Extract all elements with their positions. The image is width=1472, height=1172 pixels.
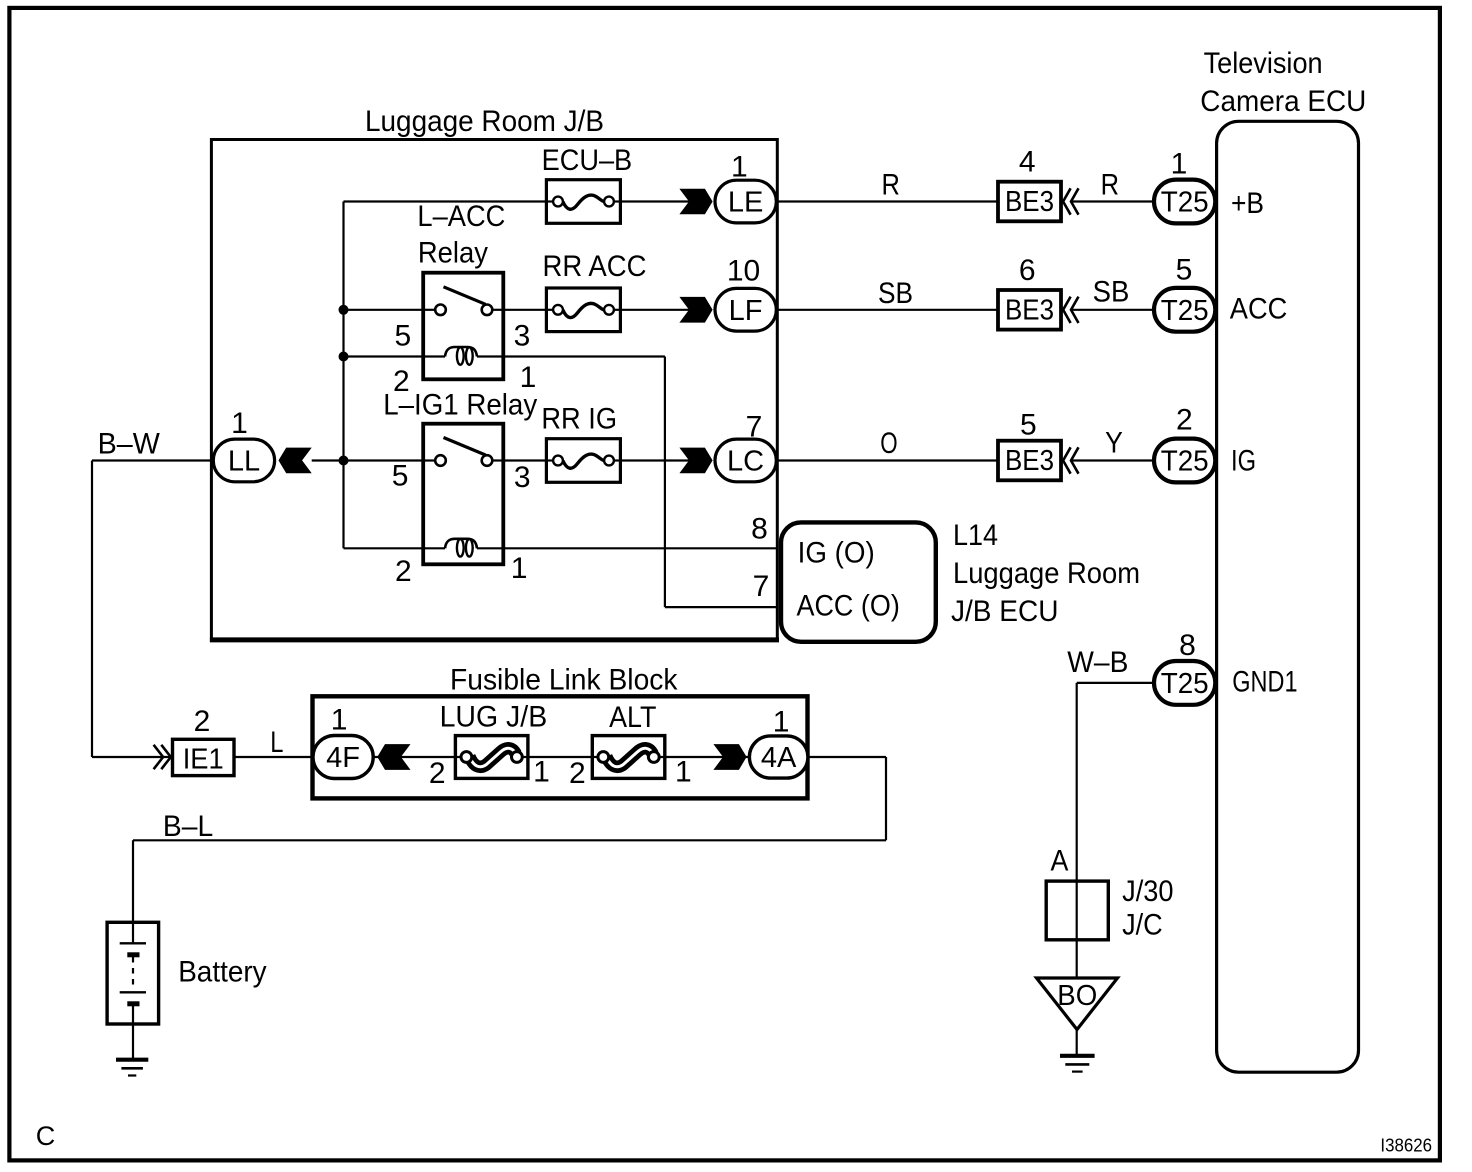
svg-text:BE3: BE3 xyxy=(1005,294,1054,326)
battery xyxy=(107,922,159,1024)
wire: 4A to corner xyxy=(808,756,886,758)
svg-text:T25: T25 xyxy=(1161,187,1209,219)
svg-text:3: 3 xyxy=(514,319,531,352)
connector BE3 pin 5 xyxy=(998,441,1061,481)
svg-text:Y: Y xyxy=(1105,426,1123,459)
fusible link ALT xyxy=(592,736,665,779)
wire: battery to ground xyxy=(132,1024,134,1060)
svg-text:IE1: IE1 xyxy=(183,744,224,776)
wire: L-ACC coil pin1 to bus VX2 xyxy=(477,355,665,357)
wire: relay 3 to RR ACC fuse xyxy=(503,309,546,311)
svg-text:4A: 4A xyxy=(761,742,797,774)
wire: SB from BE3 chevron to T25 xyxy=(1071,309,1154,311)
wire: W-B from T25 GND1 xyxy=(1077,682,1154,684)
chevron pair before IE1 xyxy=(154,745,171,769)
chevron pair at BE3 +B row xyxy=(1063,188,1078,214)
wire: ECU-B fuse to LE arrow xyxy=(620,200,689,202)
Television Camera ECU box xyxy=(1217,121,1359,1072)
svg-text:LUG J/B: LUG J/B xyxy=(440,701,548,734)
svg-text:1: 1 xyxy=(533,756,550,789)
svg-text:ECU–B: ECU–B xyxy=(542,144,633,177)
svg-text:+B: +B xyxy=(1231,187,1264,220)
svg-text:ACC: ACC xyxy=(1230,293,1288,326)
L14 Luggage Room J/B ECU box with pins IG (O) and ACC (O) xyxy=(781,522,936,641)
svg-text:RR ACC: RR ACC xyxy=(543,250,647,283)
wire: SB from LF to BE3 xyxy=(777,309,998,311)
wire: B-W horizontal to LL xyxy=(92,459,214,461)
connector 4A pin 1 xyxy=(749,736,808,778)
connector 4F pin 1 xyxy=(313,736,373,779)
Luggage Room J/B box bottom edge xyxy=(210,637,779,642)
BO ground symbol xyxy=(1060,1056,1095,1072)
svg-text:1: 1 xyxy=(231,407,248,440)
svg-text:1: 1 xyxy=(675,756,692,789)
connector LC pin 7 xyxy=(715,439,776,482)
svg-text:8: 8 xyxy=(1179,629,1196,662)
connector LL pin 1 xyxy=(213,439,274,482)
svg-text:3: 3 xyxy=(514,461,531,494)
wire: relay L-IG1 pin3 to RR IG fuse xyxy=(503,459,546,461)
svg-text:SB: SB xyxy=(878,277,913,310)
svg-text:BO: BO xyxy=(1057,980,1097,1012)
Fusible Link Block box xyxy=(313,696,808,798)
svg-text:L–IG1 Relay: L–IG1 Relay xyxy=(383,389,537,422)
connector LE pin 1 xyxy=(715,180,776,223)
connector BE3 pin 4 xyxy=(998,182,1061,222)
svg-text:2: 2 xyxy=(1176,404,1193,437)
svg-text:4F: 4F xyxy=(326,742,360,774)
connector IE1 pin 2 xyxy=(173,739,235,775)
svg-text:5: 5 xyxy=(395,319,412,352)
wire: R from LE to BE3 xyxy=(777,200,998,202)
arrow out of 4F xyxy=(377,744,410,770)
wire: 4F to LUG J/B link xyxy=(374,756,456,758)
svg-text:7: 7 xyxy=(746,410,763,443)
svg-text:5: 5 xyxy=(392,460,409,493)
wire: RR IG fuse to LC arrow xyxy=(620,459,689,461)
svg-text:Camera ECU: Camera ECU xyxy=(1200,85,1366,118)
wire: B-L row horizontal xyxy=(133,839,886,841)
wire: B-L vertical to battery xyxy=(132,840,134,922)
relay L-ACC (pins 5,3,2,1) xyxy=(423,273,503,380)
junction dot bus/ACC coil row xyxy=(339,352,349,362)
svg-text:IG: IG xyxy=(1231,445,1256,478)
connector T25 pin 1 (+B) xyxy=(1154,180,1215,224)
svg-text:I38626: I38626 xyxy=(1380,1135,1432,1156)
wire: L-IG1 coil row from bus xyxy=(344,547,446,549)
wire through J/30 box xyxy=(1076,881,1078,940)
svg-text:8: 8 xyxy=(751,513,768,546)
svg-text:Relay: Relay xyxy=(418,237,488,270)
fusible link LUG J/B xyxy=(455,736,528,779)
arrow out of LL xyxy=(279,448,312,474)
svg-text:2: 2 xyxy=(569,757,586,790)
wire: R from BE3 chevron to T25 xyxy=(1071,200,1154,202)
wire: RR ACC fuse to LF arrow xyxy=(620,309,689,311)
connector BE3 pin 6 xyxy=(998,290,1061,330)
svg-text:BE3: BE3 xyxy=(1005,445,1054,477)
arrow into LC xyxy=(679,448,712,474)
svg-text:10: 10 xyxy=(727,255,760,288)
wire: ECU-B row from bus to fuse xyxy=(344,200,547,202)
svg-text:RR IG: RR IG xyxy=(541,402,617,435)
svg-text:LE: LE xyxy=(728,187,763,219)
svg-text:L: L xyxy=(270,726,283,759)
svg-text:BE3: BE3 xyxy=(1005,186,1054,218)
fuse RR ACC xyxy=(546,288,620,332)
relay L-IG1 (pins 5,3,2,1) xyxy=(423,424,503,565)
svg-text:ACC (O): ACC (O) xyxy=(797,590,900,623)
junction dot bus/ACC row xyxy=(339,305,349,315)
connector LF pin 10 xyxy=(715,288,776,331)
svg-text:LF: LF xyxy=(729,295,763,327)
fuse RR IG xyxy=(546,439,620,483)
svg-text:2: 2 xyxy=(395,555,412,588)
ground triangle BO xyxy=(1037,978,1118,1030)
arrow into LE xyxy=(679,189,712,215)
wire: VX2 vertical to pin7 row xyxy=(664,357,666,608)
wire: ALT link to 4A arrow xyxy=(663,756,748,758)
connector T25 pin 2 (IG) xyxy=(1154,439,1215,483)
svg-text:1: 1 xyxy=(731,150,748,183)
svg-text:B–L: B–L xyxy=(163,810,213,843)
svg-text:1: 1 xyxy=(773,706,790,739)
fuse ECU-B xyxy=(546,180,620,224)
svg-text:1: 1 xyxy=(331,704,348,737)
svg-text:A: A xyxy=(1051,845,1069,878)
svg-text:2: 2 xyxy=(429,757,446,790)
svg-text:SB: SB xyxy=(1093,276,1130,309)
wire: BO apex to ground xyxy=(1076,1029,1078,1056)
wire: ACC row bus to relay xyxy=(344,309,424,311)
svg-text:LC: LC xyxy=(727,446,764,478)
arrow into LF xyxy=(679,297,712,323)
wire: LUG J/B link to ALT link xyxy=(526,756,592,758)
svg-text:L–ACC: L–ACC xyxy=(417,200,505,233)
svg-text:Television: Television xyxy=(1204,47,1323,80)
chevron pair at BE3 ACC row xyxy=(1063,297,1078,323)
svg-text:C: C xyxy=(36,1121,56,1151)
svg-text:T25: T25 xyxy=(1161,446,1209,478)
svg-text:1: 1 xyxy=(511,552,528,585)
wire: W-B vertical to J/30 xyxy=(1076,683,1078,881)
svg-text:W–B: W–B xyxy=(1067,646,1128,679)
wire: O from LC to BE3 xyxy=(777,459,998,461)
wire: IE1 row from B-W vertical xyxy=(92,756,173,758)
svg-text:6: 6 xyxy=(1019,254,1036,287)
chevron pair at BE3 IG row xyxy=(1063,447,1078,473)
wire: L-IG1 coil pin1 to J/B edge pin8 xyxy=(477,547,777,549)
wire: corner vertical to B-L row xyxy=(885,757,887,840)
svg-text:LL: LL xyxy=(228,446,260,478)
svg-text:Fusible Link Block: Fusible Link Block xyxy=(450,663,678,696)
wire: L from IE1 to 4F xyxy=(234,756,314,758)
svg-text:Luggage Room: Luggage Room xyxy=(953,557,1140,590)
svg-text:Battery: Battery xyxy=(178,956,266,989)
svg-text:Luggage Room J/B: Luggage Room J/B xyxy=(365,105,604,138)
svg-text:7: 7 xyxy=(753,570,770,603)
wire: L-ACC coil row xyxy=(344,355,446,357)
svg-text:R: R xyxy=(1101,169,1119,202)
svg-text:1: 1 xyxy=(1171,147,1188,180)
svg-text:J/30: J/30 xyxy=(1122,875,1173,908)
svg-text:4: 4 xyxy=(1019,146,1036,179)
arrow into 4A xyxy=(713,744,746,770)
wire: J/B left bus vertical xyxy=(342,202,344,549)
svg-text:T25: T25 xyxy=(1161,295,1209,327)
svg-text:T25: T25 xyxy=(1161,668,1209,700)
svg-text:O: O xyxy=(880,427,897,460)
svg-text:IG (O): IG (O) xyxy=(798,537,875,570)
svg-text:5: 5 xyxy=(1020,409,1037,442)
svg-text:L14: L14 xyxy=(953,519,998,552)
wire: Y from BE3 chevron to T25 xyxy=(1071,459,1154,461)
svg-text:J/B ECU: J/B ECU xyxy=(951,595,1059,628)
svg-text:5: 5 xyxy=(1176,254,1193,287)
wire: J/30 to BO triangle xyxy=(1076,940,1078,978)
svg-text:B–W: B–W xyxy=(98,427,161,460)
Luggage Room J/B box xyxy=(211,140,777,640)
junction connector J/30 J/C box xyxy=(1046,881,1108,940)
connector T25 pin 8 (GND1) xyxy=(1154,661,1215,705)
wire: pin7 row to J/B edge xyxy=(665,606,777,608)
svg-text:J/C: J/C xyxy=(1122,909,1163,942)
wire: B-W vertical xyxy=(91,461,93,758)
battery ground symbol xyxy=(116,1060,148,1076)
svg-text:2: 2 xyxy=(194,705,211,738)
junction dot bus/LL row xyxy=(339,456,349,466)
svg-text:ALT: ALT xyxy=(609,701,656,734)
wire: LL arrow to relay L-IG1 xyxy=(312,459,424,461)
svg-text:R: R xyxy=(882,169,900,202)
svg-text:GND1: GND1 xyxy=(1232,666,1297,699)
connector T25 pin 5 (ACC) xyxy=(1154,288,1215,332)
